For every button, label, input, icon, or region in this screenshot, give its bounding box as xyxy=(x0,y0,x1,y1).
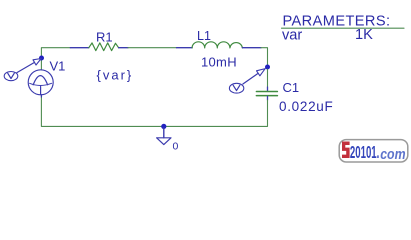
inductor L1 xyxy=(177,42,262,48)
ground junction xyxy=(161,124,166,129)
voltage probe marker on node B xyxy=(229,69,265,94)
svg-text:L1: L1 xyxy=(197,29,211,43)
capacitor C1 xyxy=(256,87,277,100)
wire xyxy=(267,69,269,87)
wire xyxy=(41,48,70,58)
svg-text:0.022uF: 0.022uF xyxy=(279,99,333,114)
svg-text:0: 0 xyxy=(173,140,179,152)
svg-text:20101.: 20101. xyxy=(350,142,379,162)
svg-text:{var}: {var} xyxy=(97,68,134,83)
svg-text:var: var xyxy=(282,28,302,44)
node B junction xyxy=(265,65,270,70)
svg-text:V1: V1 xyxy=(50,59,66,74)
resistor R1 xyxy=(70,43,128,51)
wire xyxy=(128,47,177,49)
ground 0 xyxy=(157,128,171,145)
watermark logo 520101.com xyxy=(339,140,408,163)
node A junction xyxy=(39,56,44,61)
parameters block line xyxy=(282,27,405,29)
voltage source V1 xyxy=(28,59,53,97)
svg-text:C1: C1 xyxy=(283,80,300,95)
svg-text:com: com xyxy=(380,146,405,162)
svg-text:10mH: 10mH xyxy=(201,55,237,70)
voltage probe marker on node A xyxy=(4,59,41,81)
wire xyxy=(261,48,268,65)
svg-text:1K: 1K xyxy=(355,27,373,43)
svg-text:R1: R1 xyxy=(96,29,113,44)
wire xyxy=(41,97,267,126)
